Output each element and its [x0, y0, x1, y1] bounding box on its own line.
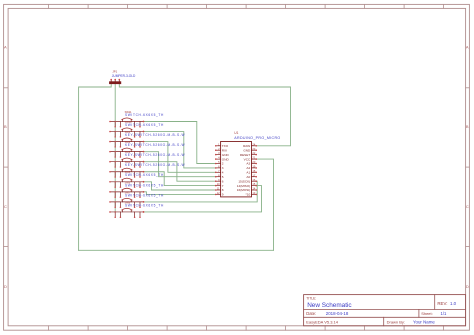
svg-text:A: A	[4, 45, 7, 50]
svg-text:B: B	[4, 124, 7, 129]
title block REV column divider	[434, 295, 436, 310]
IC U1 ARDUINO_PRO_MICRO	[215, 131, 281, 197]
svg-text:EasyEDA V5.3.14: EasyEDA V5.3.14	[306, 319, 339, 324]
svg-text:SWITCH-6X6X5_TH: SWITCH-6X6X5_TH	[125, 183, 164, 187]
title block DrawnBy column divider	[383, 317, 385, 326]
title block outline	[304, 295, 466, 326]
svg-text:*10: *10	[246, 193, 251, 197]
svg-text:RXI: RXI	[222, 148, 227, 152]
svg-text:1/1: 1/1	[441, 311, 447, 316]
svg-text:JP1: JP1	[112, 70, 117, 74]
switch SW5 SWITCH-6X6X5_TH	[109, 170, 164, 188]
svg-text:9: 9	[222, 193, 224, 197]
svg-text:KEY-SWITCH-5260G-M-B-S-W: KEY-SWITCH-5260G-M-B-S-W	[125, 153, 185, 157]
svg-text:JUMPER-3-OLD: JUMPER-3-OLD	[112, 74, 136, 78]
svg-text:6: 6	[222, 179, 224, 183]
switch SW12 SWITCH-6X6X5_TH	[109, 120, 164, 138]
border ruler ticks right	[466, 88, 470, 247]
svg-text:16(MOSI): 16(MOSI)	[237, 188, 250, 192]
svg-text:GND: GND	[243, 148, 251, 152]
svg-text:SWITCH-6X6X5_TH: SWITCH-6X6X5_TH	[125, 123, 164, 127]
svg-text:KEY-SWITCH-5260G-M-B-S-W: KEY-SWITCH-5260G-M-B-S-W	[125, 133, 185, 137]
border ruler ticks bottom	[49, 326, 444, 330]
switch SW2 KEY-SWITCH-5260G-M-B-S-W	[109, 140, 185, 158]
svg-text:7: 7	[222, 184, 224, 188]
wire SW row 1 to U1 left pin 5	[144, 122, 216, 164]
switch SW11 SWITCH-6X6X5_TH	[109, 110, 164, 128]
svg-text:Drawn By:: Drawn By:	[387, 320, 405, 325]
wire switch column rail from JP1 middle pin	[114, 83, 116, 212]
wire SW row 3 to U1 left pin 7	[144, 142, 216, 173]
svg-text:SWITCH-6X6X5_TH: SWITCH-6X6X5_TH	[125, 113, 164, 117]
wire vertical up to U1 VCC pin 21	[256, 159, 273, 250]
switch SW1 KEY-SWITCH-5260G-M-B-S-W	[109, 130, 185, 148]
svg-text:A3: A3	[246, 162, 250, 166]
svg-text:SWITCH-6X6X5_TH: SWITCH-6X6X5_TH	[125, 203, 164, 207]
svg-text:Sheet:: Sheet:	[421, 311, 433, 316]
svg-text:A1: A1	[246, 171, 250, 175]
svg-text:8: 8	[222, 188, 224, 192]
svg-text:SWITCH-6X6X5_TH: SWITCH-6X6X5_TH	[125, 173, 164, 177]
svg-text:RAW: RAW	[243, 144, 250, 148]
svg-text:2: 2	[222, 162, 224, 166]
svg-text:REV:: REV:	[437, 301, 447, 306]
svg-text:TITLE:: TITLE:	[306, 296, 316, 300]
svg-text:Date:: Date:	[306, 311, 316, 316]
svg-text:A2: A2	[246, 166, 250, 170]
wire SW row 10 to U1 right pin 15	[144, 186, 262, 212]
svg-text:KEY-SWITCH-5260G-M-B-S-W: KEY-SWITCH-5260G-M-B-S-W	[125, 163, 185, 167]
border ruler ticks left	[4, 88, 9, 247]
svg-text:ARDUINO_PRO_MICRO: ARDUINO_PRO_MICRO	[234, 136, 280, 140]
svg-text:B: B	[466, 124, 469, 129]
svg-text:15(SCK): 15(SCK)	[238, 179, 250, 183]
svg-text:KEY-SWITCH-5260G-M-B-S-W: KEY-SWITCH-5260G-M-B-S-W	[125, 143, 185, 147]
svg-text:RESET: RESET	[240, 153, 250, 157]
wire SW row 8 to U1 left pin 12	[144, 192, 216, 195]
wire SW row 7 to U1 left pin 11	[144, 182, 216, 190]
border ruler ticks top	[49, 4, 444, 8]
svg-text:A: A	[466, 45, 469, 50]
svg-text:C: C	[4, 204, 7, 209]
switch SW8 SWITCH-6X6X5_TH	[109, 200, 164, 218]
svg-text:1.0: 1.0	[450, 301, 457, 306]
title block row divider 2	[304, 316, 466, 318]
switch SW7 SWITCH-6X6X5_TH	[109, 190, 164, 208]
switch SW4 KEY-SWITCH-5260G-M-B-S-W	[109, 160, 185, 178]
border zone letters left A-D	[4, 45, 7, 290]
svg-text:VCC: VCC	[244, 157, 251, 161]
svg-text:C: C	[466, 204, 469, 209]
svg-text:TXO: TXO	[222, 144, 229, 148]
svg-text:3: 3	[222, 166, 224, 170]
svg-text:SWITCH-6X6X5_TH: SWITCH-6X6X5_TH	[125, 193, 164, 197]
svg-text:2018-04-18: 2018-04-18	[326, 311, 349, 316]
svg-text:5: 5	[222, 175, 224, 179]
switch SW6 SWITCH-6X6X5_TH	[109, 180, 164, 198]
title block Sheet column divider	[418, 309, 420, 317]
svg-text:Your Name: Your Name	[413, 320, 435, 325]
wire SW row 4 to U1 left pin 8	[144, 152, 216, 177]
svg-text:D: D	[4, 284, 7, 289]
svg-text:U1: U1	[234, 131, 238, 135]
svg-text:14(MISO): 14(MISO)	[237, 184, 250, 188]
svg-text:D: D	[466, 284, 469, 289]
wire SW row 5 to U1 left pin 9	[144, 162, 216, 182]
connector JP1 JUMPER-3-OLD	[109, 70, 136, 84]
wire bottom horizontal	[79, 249, 274, 251]
wire SW row 9 to U1 right pin 16	[144, 181, 258, 202]
svg-text:A0: A0	[246, 175, 250, 179]
border zone letters right A-D	[466, 45, 469, 290]
svg-text:4: 4	[222, 171, 224, 175]
svg-text:GND: GND	[222, 153, 230, 157]
wire SW row 6 to U1 left pin 10	[144, 172, 216, 186]
wire JP1 left pin west then down left side	[79, 84, 112, 250]
wire JP1 right pin east then down to U1 RAW pin 24	[119, 84, 290, 146]
svg-text:GND: GND	[222, 157, 230, 161]
wire SW row 2 to U1 left pin 6	[144, 132, 216, 168]
switch SW3 KEY-SWITCH-5260G-M-B-S-W	[109, 150, 185, 168]
svg-text:New Schematic: New Schematic	[307, 302, 352, 309]
title block row divider 1	[304, 308, 466, 310]
